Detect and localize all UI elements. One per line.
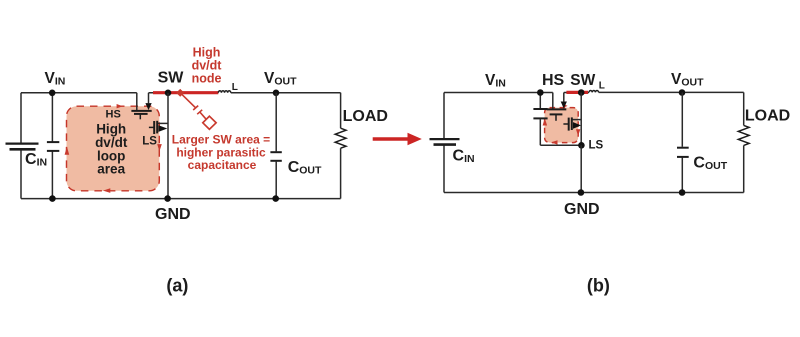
node HS dot (b): [537, 89, 544, 96]
wire: L to load corner (b): [599, 91, 744, 93]
loop arrow right (down): [157, 144, 162, 151]
label HS: [106, 108, 121, 120]
wire: input bypass capacitor branch: [51, 93, 53, 199]
svg-text:L: L: [599, 81, 605, 92]
svg-text:area: area: [97, 161, 125, 176]
label HS (b): [542, 72, 565, 89]
label Larger SW area = higher parasitic capacitance: [172, 133, 270, 173]
svg-text:dv/dt: dv/dt: [192, 58, 223, 72]
svg-text:LS: LS: [589, 139, 604, 151]
capacitor CIN plates: [6, 144, 39, 150]
high dv/dt loop shaded area: [67, 106, 160, 191]
label VOUT (b): [671, 71, 704, 89]
red SW node wire: [149, 92, 219, 94]
label COUT (a): [288, 159, 322, 177]
svg-text:HS: HS: [542, 72, 565, 89]
node VOUT dot (a): [273, 90, 280, 97]
caption (a): [166, 275, 188, 295]
node LS dot (b): [578, 142, 585, 149]
capacitor (input bypass) plates: [47, 142, 59, 151]
label LOAD (a): [343, 108, 388, 125]
svg-text:High: High: [193, 45, 221, 59]
node dot bypass bottom: [49, 195, 56, 202]
label SW (b): [570, 72, 595, 89]
label GND (a): [155, 206, 191, 223]
parasitic capacitance callout arrow: [176, 89, 216, 129]
loop arrow right (down) (b): [576, 129, 580, 136]
label High dv/dt node: [192, 45, 223, 85]
svg-text:SW: SW: [570, 72, 595, 89]
svg-text:(b): (b): [587, 275, 610, 295]
node COUT bottom dot (b): [679, 189, 686, 196]
svg-text:GND: GND: [564, 201, 600, 218]
label LS (b): [589, 139, 604, 151]
big red arrow between circuits: [373, 133, 422, 145]
label L (b): [599, 81, 605, 92]
node COUT bottom dot (a): [272, 195, 279, 202]
loop arrow bottom (left): [103, 188, 110, 193]
svg-text:GND: GND: [155, 206, 191, 223]
transistor LS Q2: [149, 93, 168, 199]
label COUT (b): [693, 154, 727, 172]
node VIN dot: [49, 90, 56, 97]
node VOUT dot (b): [679, 89, 686, 96]
capacitor CIN plates (b): [430, 139, 460, 145]
capacitor COUT branch (a): [270, 93, 281, 199]
label GND (b): [564, 201, 600, 218]
svg-text:(a): (a): [166, 275, 188, 295]
svg-text:LOAD: LOAD: [745, 108, 790, 125]
red SW node wire (b): [564, 91, 589, 93]
loop arrow bottom (left) (b): [551, 140, 558, 144]
label VIN (b): [485, 72, 506, 90]
bypass capacitor branch (b): [533, 93, 547, 146]
label High dv/dt loop area: [95, 122, 128, 177]
node GND dot (b): [578, 189, 585, 196]
svg-text:SW: SW: [158, 70, 185, 87]
capacitor COUT branch (b): [677, 93, 689, 193]
label CIN: [25, 151, 47, 169]
wire: bottom GND rail (b): [444, 192, 744, 194]
svg-text:node: node: [192, 71, 222, 85]
loop arrow top (right): [117, 104, 123, 108]
node SW dot (b): [578, 89, 585, 96]
transistor HS (b): [547, 93, 567, 121]
wire: LS to GND (b): [580, 145, 582, 192]
svg-text:L: L: [232, 82, 238, 93]
node SW dot: [165, 90, 172, 97]
label SW: [158, 70, 185, 87]
svg-text:LS: LS: [142, 136, 157, 148]
load resistor branch (b): [738, 92, 749, 192]
label VIN: [45, 70, 66, 88]
wire: loop bottom (b): [540, 144, 581, 146]
load resistor branch (a): [335, 93, 346, 199]
label L (a): [232, 82, 238, 93]
svg-text:capacitance: capacitance: [188, 158, 257, 172]
transistor HS Q1: [131, 93, 151, 120]
inductor L (a): [218, 91, 230, 93]
wire: left branch vertical (CIN): [20, 93, 22, 199]
transistor LS (b): [563, 93, 581, 146]
inductor L (b): [589, 91, 599, 93]
loop arrow top (right) (b): [563, 104, 568, 108]
wire: CIN branch (b): [443, 93, 445, 193]
svg-text:LOAD: LOAD: [343, 108, 388, 125]
label LOAD (b): [745, 108, 790, 125]
wire: top rail (b): [444, 92, 553, 94]
caption (b): [587, 275, 610, 295]
svg-text:HS: HS: [106, 108, 121, 120]
loop arrow left (up): [65, 147, 70, 155]
wire: bottom GND rail: [21, 198, 341, 200]
wire: top rail VIN to HS drain: [21, 92, 137, 94]
wire: L to VOUT corner: [231, 92, 341, 94]
label VOUT (a): [264, 70, 297, 88]
small dv/dt loop shaded area (b): [545, 108, 579, 143]
node GND dot (a): [164, 195, 171, 202]
label CIN (b): [453, 148, 475, 166]
loop arrow left (up) (b): [543, 118, 548, 125]
label LS: [142, 136, 157, 148]
